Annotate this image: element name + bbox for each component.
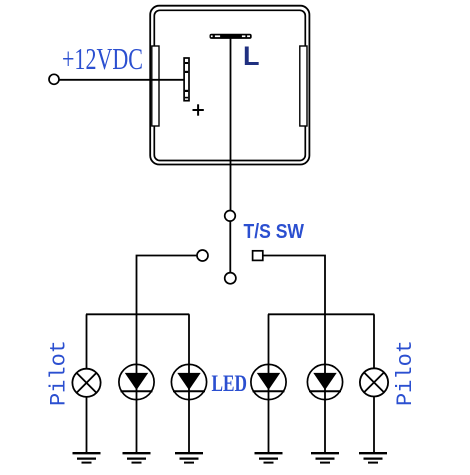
right bus wire <box>268 313 374 315</box>
svg-text:L: L <box>243 41 260 71</box>
switch S1 pole top terminal <box>225 211 236 222</box>
wire: pilot left to ground <box>86 397 88 453</box>
svg-text:LED: LED <box>212 371 248 396</box>
ground G3 <box>175 453 203 462</box>
pilot lamp left (circle-X) <box>72 369 100 397</box>
plus polarity mark <box>193 104 204 115</box>
LED D3 <box>251 364 286 399</box>
ground G4 <box>255 453 283 462</box>
LED D2 <box>171 364 206 399</box>
left bus wire <box>86 313 189 315</box>
wire: right contact to right feed <box>263 256 325 315</box>
svg-text:Pilot: Pilot <box>393 340 418 406</box>
switch S1 pole arm <box>229 221 231 273</box>
ground G1 <box>73 453 101 462</box>
svg-text:T/S SW: T/S SW <box>244 221 305 243</box>
wire: pilot right to ground <box>373 397 375 453</box>
L terminal bar (top slotted lug) <box>210 34 252 39</box>
wire: bus to pilot lamp left <box>86 314 88 369</box>
right mounting tab <box>300 46 307 126</box>
battery terminal (+12VDC input circle) <box>49 74 59 84</box>
left mounting tab <box>152 46 159 126</box>
wire: through LED D4 branch <box>324 314 326 452</box>
internal terminal bar (slotted vertical lug) <box>184 58 189 101</box>
LED D1 <box>119 364 154 399</box>
LED D4 <box>307 364 342 399</box>
wire: left contact to left feed <box>137 256 198 315</box>
ground G6 <box>359 453 387 462</box>
svg-text:+12VDC: +12VDC <box>62 41 143 76</box>
wire: through LED D2 branch <box>188 314 190 452</box>
wire: L lug down to switch <box>230 39 232 211</box>
wire: through LED D1 branch <box>136 314 138 452</box>
wire: +12VDC terminal to relay internal lug <box>59 79 185 81</box>
ground G5 <box>311 453 339 462</box>
relay U1 (flasher can body) <box>150 6 309 165</box>
switch right throw contact (square) <box>253 251 263 261</box>
wire: bus to pilot lamp right <box>373 314 375 369</box>
wire: through LED D3 branch <box>268 314 270 452</box>
pilot lamp right (circle-X) <box>360 368 388 396</box>
switch S1 pole bottom contact <box>225 273 236 284</box>
switch left throw contact <box>197 250 208 261</box>
svg-text:Pilot: Pilot <box>47 340 72 406</box>
ground G2 <box>123 453 151 462</box>
